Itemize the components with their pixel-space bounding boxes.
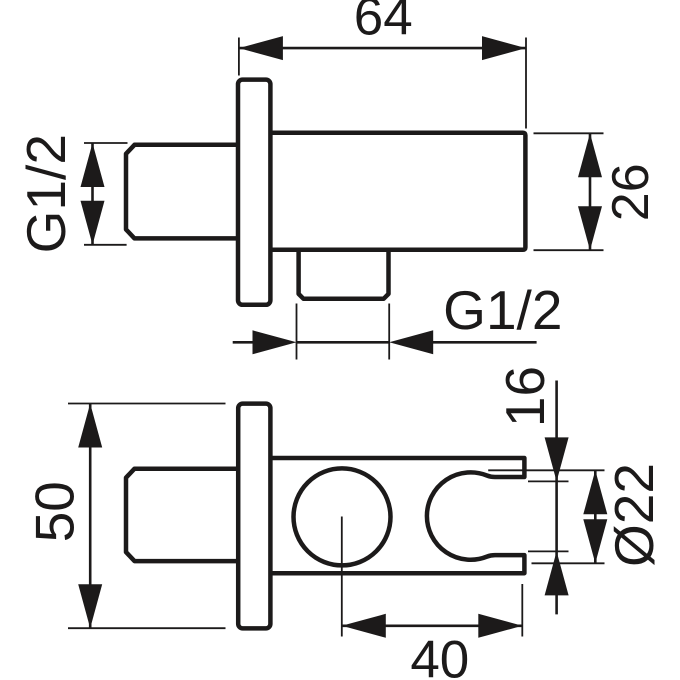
tick bottom (26) (534, 249, 604, 251)
arrow down (50) (78, 584, 102, 628)
extension line right (G1/2 bottom) (388, 304, 390, 360)
tick top (G1/2 left) (84, 142, 128, 144)
arrow down (G1/2 left) (81, 201, 105, 245)
tick top (26) (534, 132, 604, 134)
svg-text:40: 40 (410, 631, 469, 680)
wall plate (front view) (238, 404, 270, 629)
tick ring bottom (O22) (532, 562, 605, 564)
centerline of hole (40 left extension) (341, 517, 343, 637)
dimension line 16 (555, 381, 558, 615)
arrow right (40) (478, 614, 522, 638)
tick slot top (16) (528, 480, 569, 482)
tick slot bottom (16) (528, 550, 569, 552)
hole circle (front view) (294, 468, 391, 565)
arrow up (50) (78, 404, 102, 448)
arrow left (40) (342, 614, 386, 638)
svg-text:Ø22: Ø22 (603, 463, 665, 567)
dimension line O22 (594, 470, 597, 563)
arrow left (G1/2 bottom, points right) (253, 330, 297, 354)
extension line left (64) (238, 38, 240, 76)
arrow right (G1/2 bottom, points left) (389, 330, 433, 354)
arrow up (O22) (583, 470, 607, 514)
svg-text:G1/2: G1/2 (443, 279, 562, 341)
arrow left (64) (239, 36, 283, 60)
body with holder fork (front view) (269, 458, 524, 573)
tail right (G1/2 bottom) (429, 341, 536, 344)
arrow down (16, above slot) (545, 437, 569, 481)
arrow up (16, below slot) (545, 551, 569, 595)
dimension line middle (G1/2 bottom) (297, 341, 390, 344)
arrow up (G1/2 left) (81, 143, 105, 187)
tick ring top (O22) (488, 469, 604, 471)
wall plate (top view) (238, 80, 270, 305)
svg-text:26: 26 (602, 163, 660, 221)
extension line right (64) (525, 38, 527, 129)
extension line right (40) (521, 584, 523, 637)
tick top (50) (68, 403, 226, 405)
dimension line 26 (589, 133, 592, 250)
dimension line 50 (89, 404, 92, 629)
fitting G1/2 (left, front view) (126, 469, 239, 561)
arrow down (O22) (583, 519, 607, 563)
extension line left (G1/2 bottom) (296, 304, 298, 360)
svg-text:G1/2: G1/2 (15, 134, 77, 253)
outlet port (bottom, G1/2) (299, 250, 389, 299)
dimension line G1/2 left (91, 143, 94, 245)
tail left (G1/2 bottom) (233, 341, 257, 344)
svg-text:50: 50 (24, 481, 86, 542)
dimension line 64 (239, 47, 526, 50)
tick bottom (50) (68, 627, 226, 629)
tick bottom (G1/2 left) (84, 244, 127, 246)
svg-text:16: 16 (494, 366, 556, 427)
arrow up (26) (578, 133, 602, 177)
arrow down (26) (578, 206, 602, 250)
fitting G1/2 (left, top view) (126, 145, 239, 239)
dimension line 40 (342, 624, 523, 627)
body (top view, main rectangle) (269, 133, 525, 250)
svg-text:64: 64 (354, 0, 413, 47)
arrow right (64) (482, 36, 526, 60)
